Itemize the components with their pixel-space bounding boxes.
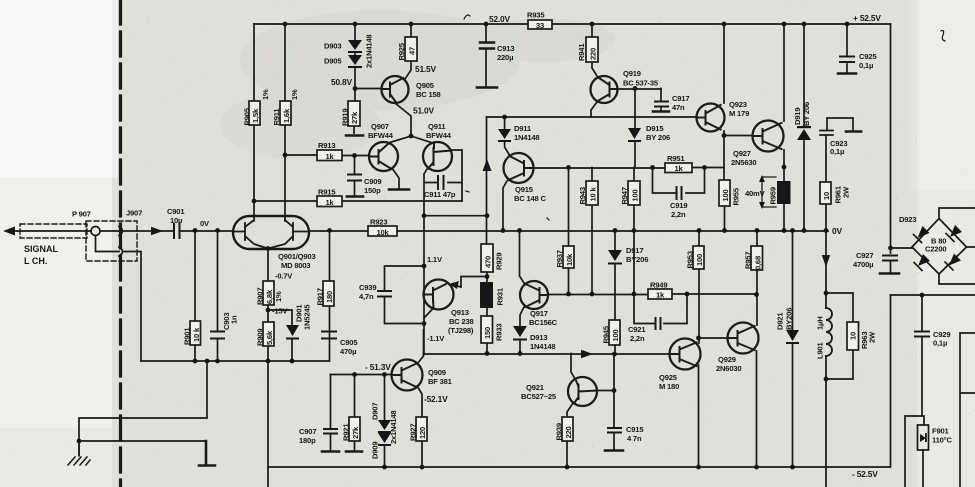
svg-text:R921: R921 xyxy=(342,423,351,441)
svg-text:10 k: 10 k xyxy=(589,187,598,202)
svg-text:R955: R955 xyxy=(732,187,741,205)
svg-text:R957: R957 xyxy=(744,252,753,269)
svg-text:1%: 1% xyxy=(290,89,299,100)
svg-text:R941: R941 xyxy=(577,43,586,61)
svg-text:R907: R907 xyxy=(256,288,265,305)
svg-text:-1.1V: -1.1V xyxy=(427,334,445,343)
svg-text:2W: 2W xyxy=(868,331,877,343)
svg-text:C905: C905 xyxy=(340,338,358,347)
svg-text:M 179: M 179 xyxy=(729,109,749,118)
svg-text:0,1µ: 0,1µ xyxy=(933,339,947,348)
svg-text:(TJ298): (TJ298) xyxy=(448,326,474,335)
svg-text:L901: L901 xyxy=(816,342,825,359)
svg-text:D903: D903 xyxy=(324,42,341,51)
svg-text:470: 470 xyxy=(484,256,493,268)
svg-text:R937: R937 xyxy=(555,250,564,267)
svg-text:R947: R947 xyxy=(620,187,629,204)
svg-text:R939: R939 xyxy=(555,423,564,440)
svg-text:R935: R935 xyxy=(527,11,545,20)
svg-text:220: 220 xyxy=(589,48,598,60)
svg-text:1k: 1k xyxy=(325,198,334,207)
svg-text:4,7n: 4,7n xyxy=(359,292,374,301)
svg-text:C919: C919 xyxy=(670,201,687,210)
svg-text:0,1µ: 0,1µ xyxy=(830,147,844,156)
svg-text:Q915: Q915 xyxy=(515,185,534,194)
svg-text:R929: R929 xyxy=(495,253,504,270)
svg-text:2x1N4148: 2x1N4148 xyxy=(389,411,398,444)
svg-text:R951: R951 xyxy=(667,154,685,163)
svg-text:4700µ: 4700µ xyxy=(853,260,873,269)
svg-text:47n: 47n xyxy=(672,103,685,112)
svg-text:D915: D915 xyxy=(646,124,664,133)
svg-text:100: 100 xyxy=(631,189,640,201)
svg-text:Q929: Q929 xyxy=(718,355,736,364)
svg-text:R949: R949 xyxy=(650,281,667,290)
svg-text:D917: D917 xyxy=(626,246,643,255)
svg-text:R917: R917 xyxy=(316,288,325,305)
svg-text:2,2n: 2,2n xyxy=(630,334,645,343)
svg-text:D913: D913 xyxy=(530,333,547,342)
svg-text:27k: 27k xyxy=(350,111,359,124)
svg-text:C925: C925 xyxy=(859,52,877,61)
svg-text:C917: C917 xyxy=(672,94,689,103)
svg-text:BF 381: BF 381 xyxy=(428,377,453,386)
svg-text:R943: R943 xyxy=(578,187,587,204)
svg-text:27k: 27k xyxy=(351,426,360,439)
svg-text:2W: 2W xyxy=(842,186,851,198)
svg-text:4 7n: 4 7n xyxy=(627,434,642,443)
svg-text:D911: D911 xyxy=(514,124,532,133)
svg-text:R959: R959 xyxy=(769,187,778,204)
svg-text:BY206: BY206 xyxy=(785,308,794,330)
svg-text:1N5245: 1N5245 xyxy=(303,304,312,330)
svg-text:BY 206: BY 206 xyxy=(802,102,811,126)
svg-text:-15V: -15V xyxy=(272,307,288,316)
svg-text:Q927: Q927 xyxy=(733,149,751,158)
svg-text:Q913: Q913 xyxy=(451,308,469,317)
svg-text:10: 10 xyxy=(822,192,831,200)
svg-text:180p: 180p xyxy=(299,436,316,445)
svg-text:P 907: P 907 xyxy=(72,210,91,219)
svg-text:R923: R923 xyxy=(370,218,387,227)
svg-text:D923: D923 xyxy=(899,215,916,224)
svg-text:R953: R953 xyxy=(686,251,695,268)
svg-text:R915: R915 xyxy=(318,188,336,197)
svg-text:0,1µ: 0,1µ xyxy=(859,61,873,70)
svg-text:L CH.: L CH. xyxy=(24,256,47,266)
svg-text:52.0V: 52.0V xyxy=(489,14,511,24)
svg-text:1%: 1% xyxy=(261,89,270,100)
svg-text:- 52.5V: - 52.5V xyxy=(852,469,878,479)
svg-text:180: 180 xyxy=(325,291,334,303)
svg-text:10k: 10k xyxy=(376,228,389,237)
svg-text:Q907: Q907 xyxy=(371,122,389,131)
svg-text:1n: 1n xyxy=(230,315,239,324)
svg-text:D919: D919 xyxy=(793,108,802,125)
svg-text:2x1N4148: 2x1N4148 xyxy=(365,35,374,68)
svg-text:40mV: 40mV xyxy=(745,189,766,198)
svg-text:220µ: 220µ xyxy=(497,53,513,62)
svg-text:Q921: Q921 xyxy=(526,383,545,392)
svg-text:33: 33 xyxy=(536,21,544,30)
svg-text:100: 100 xyxy=(695,254,704,266)
svg-text:1,5k: 1,5k xyxy=(251,108,260,123)
svg-text:0V: 0V xyxy=(200,219,210,228)
svg-text:BFW44: BFW44 xyxy=(368,131,394,140)
svg-text:Q925: Q925 xyxy=(659,373,678,382)
svg-text:R931: R931 xyxy=(496,287,505,305)
svg-text:Q909: Q909 xyxy=(428,368,446,377)
svg-text:1%: 1% xyxy=(274,291,283,302)
svg-text:220: 220 xyxy=(564,426,573,438)
svg-text:R911: R911 xyxy=(272,108,281,126)
svg-text:2,2n: 2,2n xyxy=(671,210,686,219)
svg-text:150: 150 xyxy=(483,327,492,339)
svg-text:C2200: C2200 xyxy=(925,245,946,254)
svg-text:2N5630: 2N5630 xyxy=(731,158,756,167)
svg-text:1k: 1k xyxy=(674,164,683,173)
svg-text:+ 52.5V: + 52.5V xyxy=(853,13,881,23)
svg-text:100: 100 xyxy=(721,189,730,201)
svg-text:C911 47p: C911 47p xyxy=(424,190,456,199)
svg-text:50.8V: 50.8V xyxy=(331,77,353,87)
svg-text:Q917: Q917 xyxy=(530,309,548,318)
svg-text:C913: C913 xyxy=(497,44,514,53)
svg-text:R909: R909 xyxy=(256,329,265,346)
svg-text:1k: 1k xyxy=(325,152,334,161)
svg-text:M 180: M 180 xyxy=(659,382,679,391)
svg-text:1N4148: 1N4148 xyxy=(530,342,555,351)
svg-text:BY206: BY206 xyxy=(626,255,648,264)
svg-text:1,6k: 1,6k xyxy=(282,108,291,123)
svg-text:BC156C: BC156C xyxy=(529,318,558,327)
svg-text:0V: 0V xyxy=(832,226,842,236)
svg-text:R925: R925 xyxy=(397,42,406,60)
svg-text:C927: C927 xyxy=(856,251,873,260)
svg-text:-52.1V: -52.1V xyxy=(424,394,448,404)
svg-text:SIGNAL: SIGNAL xyxy=(24,244,59,254)
svg-text:Q905: Q905 xyxy=(416,81,435,90)
svg-text:Q901/Q903: Q901/Q903 xyxy=(278,252,315,261)
svg-text:BC 148 C: BC 148 C xyxy=(514,194,546,203)
svg-text:51.5V: 51.5V xyxy=(415,64,437,74)
svg-text:47: 47 xyxy=(408,47,417,55)
svg-text:R927: R927 xyxy=(409,424,418,441)
svg-text:470µ: 470µ xyxy=(340,347,356,356)
svg-text:10µ: 10µ xyxy=(170,216,182,225)
svg-text:R901: R901 xyxy=(183,327,192,345)
svg-text:J907: J907 xyxy=(126,209,142,218)
svg-text:R919: R919 xyxy=(341,109,350,126)
svg-text:10 k: 10 k xyxy=(192,327,201,342)
svg-text:BC 158: BC 158 xyxy=(416,90,441,99)
svg-text:R913: R913 xyxy=(318,141,335,150)
svg-text:BFW44: BFW44 xyxy=(426,131,452,140)
svg-text:10k: 10k xyxy=(565,253,574,266)
svg-text:C939: C939 xyxy=(359,283,376,292)
svg-text:C907: C907 xyxy=(299,427,316,436)
svg-text:D905: D905 xyxy=(324,57,342,66)
svg-text:C921: C921 xyxy=(628,325,646,334)
svg-text:D921: D921 xyxy=(776,312,785,330)
svg-text:110°C: 110°C xyxy=(932,436,952,445)
svg-text:2N6030: 2N6030 xyxy=(716,364,741,373)
svg-text:D907: D907 xyxy=(371,403,380,420)
svg-text:C901: C901 xyxy=(167,207,185,216)
svg-text:10: 10 xyxy=(849,332,858,340)
svg-text:100: 100 xyxy=(611,329,620,341)
svg-text:BC 537-35: BC 537-35 xyxy=(623,79,659,88)
svg-text:1N4148: 1N4148 xyxy=(514,133,539,142)
svg-text:120: 120 xyxy=(418,427,427,439)
svg-text:51.0V: 51.0V xyxy=(413,106,435,116)
svg-text:1k: 1k xyxy=(656,291,665,300)
svg-text:C915: C915 xyxy=(626,425,644,434)
svg-text:MD 8003: MD 8003 xyxy=(281,261,310,270)
svg-text:BC 238: BC 238 xyxy=(449,317,474,326)
svg-text:Q911: Q911 xyxy=(428,122,446,131)
svg-text:R945: R945 xyxy=(602,325,611,343)
svg-text:6,8k: 6,8k xyxy=(265,289,274,304)
svg-text:1.1V: 1.1V xyxy=(427,255,443,264)
svg-text:BC527~25: BC527~25 xyxy=(521,392,557,401)
svg-text:D909: D909 xyxy=(371,442,380,459)
svg-text:R933: R933 xyxy=(495,324,504,341)
svg-text:C909: C909 xyxy=(364,177,381,186)
svg-text:1µH: 1µH xyxy=(816,317,825,330)
svg-text:-0.7V: -0.7V xyxy=(275,272,293,281)
svg-text:150p: 150p xyxy=(364,186,381,195)
svg-text:Q923: Q923 xyxy=(729,100,747,109)
svg-text:Q919: Q919 xyxy=(623,69,641,78)
svg-text:5,6k: 5,6k xyxy=(265,330,274,345)
svg-text:- 51.3V: - 51.3V xyxy=(365,362,391,372)
svg-text:0,68: 0,68 xyxy=(754,256,763,270)
svg-text:F901: F901 xyxy=(932,427,949,436)
svg-text:BY 206: BY 206 xyxy=(646,133,670,142)
